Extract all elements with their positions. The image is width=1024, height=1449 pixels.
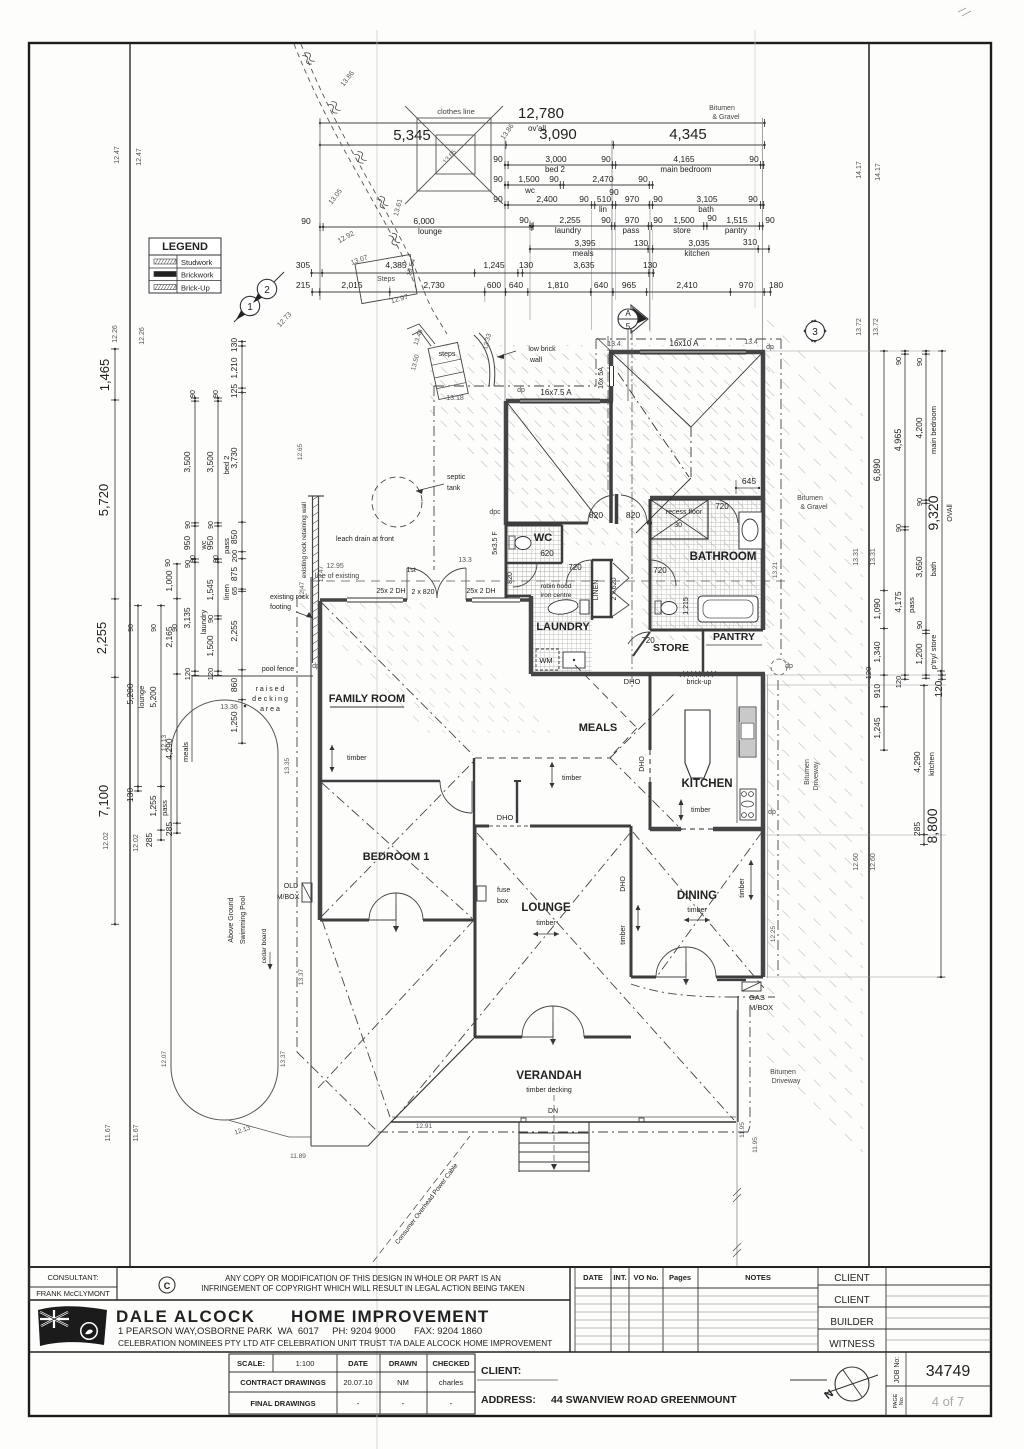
svg-text:12.26: 12.26 (112, 325, 119, 343)
svg-text:LINEN: LINEN (593, 580, 600, 601)
svg-text:2,255: 2,255 (559, 215, 581, 225)
svg-text:14.17: 14.17 (875, 163, 882, 181)
septic tank (372, 477, 422, 527)
svg-text:pantry: pantry (725, 226, 747, 235)
svg-text:12.65: 12.65 (297, 443, 304, 460)
svg-text:NM: NM (397, 1378, 409, 1387)
svg-text:2 x 820: 2 x 820 (412, 589, 435, 596)
svg-text:existing rock: existing rock (270, 594, 309, 601)
svg-text:pass: pass (623, 226, 640, 235)
dho dashes lounge top (489, 825, 530, 827)
svg-text:90: 90 (749, 154, 759, 164)
svg-text:CONTRACT DRAWINGS: CONTRACT DRAWINGS (240, 1378, 325, 1387)
main bedroom top wall (609, 350, 765, 355)
svg-text:dpc: dpc (489, 509, 501, 516)
svg-text:90: 90 (519, 215, 529, 225)
east wall of bed1/lounge (473, 758, 475, 920)
svg-text:90: 90 (165, 559, 172, 567)
svg-text:LEGEND: LEGEND (162, 241, 208, 253)
laundry door arc (566, 560, 592, 586)
svg-text:2,255: 2,255 (94, 622, 109, 655)
family door arcs (406, 568, 408, 600)
svg-text:WITNESS: WITNESS (829, 1339, 875, 1350)
dining right wall (761, 832, 766, 977)
pool outline (171, 700, 278, 1120)
dp circle (771, 659, 787, 675)
tiled floor bathroom (650, 498, 762, 628)
svg-text:1,245: 1,245 (872, 717, 882, 739)
svg-text:charles: charles (439, 1378, 463, 1387)
svg-text:4,965: 4,965 (893, 429, 903, 452)
power cable (373, 1136, 470, 1262)
svg-text:Bitumen: Bitumen (804, 759, 811, 785)
svg-text:720: 720 (568, 563, 582, 572)
svg-text:65: 65 (230, 587, 239, 595)
marker circle 2 (253, 280, 272, 303)
svg-text:90: 90 (213, 555, 220, 563)
svg-text:970: 970 (739, 280, 753, 290)
bathroom door arcs (650, 560, 676, 586)
svg-text:laundry: laundry (555, 226, 581, 235)
svg-text:FINAL DRAWINGS: FINAL DRAWINGS (250, 1399, 315, 1408)
dim chain wc/2470 (505, 184, 653, 186)
svg-text:Driveway: Driveway (772, 1078, 801, 1085)
steps tilted rect (355, 254, 417, 303)
svg-text:215: 215 (296, 280, 310, 290)
roof lines west wing (322, 603, 473, 755)
svg-text:kitchen: kitchen (927, 752, 936, 776)
right margin line (868, 43, 870, 1267)
svg-text:16x 5A: 16x 5A (598, 367, 605, 389)
svg-text:12.02: 12.02 (133, 834, 140, 852)
svg-text:pool fence: pool fence (262, 666, 294, 673)
svg-text:DALE ALCOCK: DALE ALCOCK (116, 1307, 256, 1326)
raised deck (191, 676, 193, 762)
svg-text:12.02: 12.02 (103, 832, 110, 850)
gas mbox (742, 982, 761, 991)
svg-text:860: 860 (229, 678, 239, 692)
svg-text:-: - (402, 1399, 405, 1408)
client sig rows (885, 1267, 887, 1352)
svg-text:1,545: 1,545 (205, 579, 215, 601)
svg-text:1,215: 1,215 (683, 597, 690, 615)
svg-text:DATE: DATE (348, 1359, 368, 1368)
svg-text:pass: pass (907, 597, 916, 613)
svg-text:90: 90 (601, 154, 611, 164)
svg-text:-: - (357, 1399, 360, 1408)
svg-text:90: 90 (915, 498, 924, 506)
svg-text:120: 120 (864, 667, 873, 680)
dim chain bed2/main bedroom (505, 164, 764, 166)
svg-text:dp: dp (312, 663, 320, 670)
svg-text:Above Ground: Above Ground (228, 897, 235, 942)
svg-text:Steps: Steps (377, 276, 395, 283)
scan fold line left (376, 30, 378, 1449)
left chain bed2/pass/linen (217, 398, 219, 675)
svg-text:DHO: DHO (639, 756, 646, 772)
svg-text:11.67: 11.67 (133, 1124, 140, 1141)
consultant box (29, 1299, 570, 1301)
svg-text:OVAll: OVAll (947, 504, 954, 522)
bath tub (698, 596, 758, 622)
center nib (615, 494, 619, 524)
svg-text:lounge: lounge (418, 227, 443, 236)
svg-text:620: 620 (540, 549, 554, 558)
svg-text:M/BOX: M/BOX (277, 894, 300, 901)
svg-text:3,500: 3,500 (205, 451, 215, 473)
svg-text:11.89: 11.89 (290, 1153, 306, 1160)
svg-text:875: 875 (229, 567, 239, 581)
svg-text:90: 90 (638, 174, 648, 184)
svg-text:timber: timber (620, 925, 627, 945)
645 dim (736, 487, 759, 489)
right chain 3 (925, 351, 927, 678)
kitchen right wall (761, 674, 766, 832)
svg-text:timber: timber (562, 775, 582, 782)
svg-text:NOTES: NOTES (745, 1273, 771, 1282)
svg-text:footing: footing (270, 604, 291, 611)
svg-text:A: A (625, 309, 631, 318)
wc walls (506, 524, 562, 527)
svg-text:1,500: 1,500 (673, 215, 695, 225)
svg-text:ANY COPY OR MODIFICATION OF TH: ANY COPY OR MODIFICATION OF THIS DESIGN … (225, 1274, 501, 1283)
left main chain (114, 349, 116, 924)
svg-text:DHO: DHO (624, 677, 641, 686)
svg-text:-: - (450, 1399, 453, 1408)
left chain lounge (137, 606, 139, 791)
svg-text:FRANK McCLYMONT: FRANK McCLYMONT (36, 1289, 110, 1298)
svg-text:pass: pass (160, 800, 169, 816)
dim chain lounge 6000 (320, 226, 532, 228)
svg-text:90: 90 (549, 174, 559, 184)
svg-text:Brickwork: Brickwork (181, 271, 214, 280)
svg-text:3,105: 3,105 (696, 194, 718, 204)
svg-text:44 SWANVIEW ROAD GREENMOUNT: 44 SWANVIEW ROAD GREENMOUNT (551, 1394, 737, 1406)
lounge/dining divider (630, 826, 633, 977)
dim chain 5345/3090/4345 (320, 144, 765, 146)
svg-text:WM: WM (539, 656, 552, 665)
svg-text:3,000: 3,000 (545, 154, 567, 164)
svg-text:12.95: 12.95 (326, 563, 344, 570)
svg-text:Driveway: Driveway (813, 761, 820, 790)
svg-text:Bitumen: Bitumen (797, 495, 823, 502)
svg-text:LOUNGE: LOUNGE (521, 902, 571, 914)
svg-text:Studwork: Studwork (181, 258, 213, 267)
svg-text:2,400: 2,400 (536, 194, 558, 204)
bottom band (29, 1351, 991, 1353)
svg-text:1,500: 1,500 (205, 635, 215, 657)
job/page cells (885, 1352, 887, 1416)
right chain 1 (883, 351, 885, 750)
svg-text:820: 820 (589, 510, 603, 520)
title block top line (29, 1266, 991, 1268)
svg-text:meals: meals (572, 249, 593, 258)
bed1 double door (369, 893, 396, 920)
right chain kitchen (923, 685, 925, 844)
svg-text:5,200: 5,200 (148, 686, 158, 708)
svg-text:4,345: 4,345 (669, 126, 707, 143)
right chain 4 overall (941, 351, 943, 679)
svg-text:720: 720 (653, 566, 667, 575)
svg-text:25x 2 DH: 25x 2 DH (466, 588, 495, 595)
section line vertical (631, 330, 633, 690)
legend box (149, 238, 221, 293)
svg-text:90: 90 (190, 555, 197, 563)
svg-text:FAMILY ROOM: FAMILY ROOM (329, 693, 405, 705)
right chain 8800 (940, 671, 942, 977)
marker 3 (804, 320, 826, 342)
svg-text:910: 910 (872, 684, 882, 698)
svg-text:120: 120 (894, 676, 903, 689)
hatch right strip (767, 320, 863, 1152)
svg-text:septic: septic (447, 474, 466, 481)
window 16x10A (640, 349, 746, 351)
svg-text:120: 120 (183, 668, 192, 681)
svg-text:3,650: 3,650 (914, 556, 924, 578)
svg-text:1 PEARSON WAY,OSBORNE PARK WA: 1 PEARSON WAY,OSBORNE PARK WA 6017 PH: 9… (118, 1326, 482, 1337)
svg-text:3,635: 3,635 (573, 260, 595, 270)
svg-text:13.4: 13.4 (607, 341, 621, 348)
svg-text:13.18: 13.18 (446, 395, 464, 402)
family top wall + windows (320, 598, 347, 602)
copyright (159, 1277, 175, 1293)
svg-text:DN: DN (548, 1108, 558, 1115)
svg-text:fuse: fuse (497, 887, 510, 894)
svg-text:lounge: lounge (137, 686, 146, 709)
door arc bed2 (588, 495, 614, 523)
svg-text:13.37: 13.37 (280, 1050, 287, 1067)
bed1 bottom wall (320, 919, 369, 922)
svg-text:25x 2 DH: 25x 2 DH (376, 588, 405, 595)
svg-text:- 30: - 30 (670, 522, 682, 529)
svg-text:DINING: DINING (677, 890, 717, 902)
svg-text:BUILDER: BUILDER (830, 1317, 873, 1328)
svg-text:90: 90 (748, 194, 758, 204)
svg-text:PANTRY: PANTRY (713, 631, 755, 643)
svg-text:12,780: 12,780 (518, 105, 564, 122)
svg-text:timber: timber (691, 807, 711, 814)
timber arrow family (331, 745, 333, 772)
svg-text:130: 130 (519, 260, 533, 270)
svg-text:90: 90 (653, 215, 663, 225)
svg-text:16x10 A: 16x10 A (670, 339, 700, 348)
svg-text:13.47: 13.47 (318, 565, 325, 582)
svg-text:3,035: 3,035 (688, 238, 710, 248)
svg-text:7,100: 7,100 (96, 785, 111, 818)
svg-text:1:100: 1:100 (296, 1359, 315, 1368)
svg-text:12.60: 12.60 (870, 853, 877, 871)
svg-text:90: 90 (208, 521, 215, 529)
svg-text:90: 90 (206, 615, 215, 623)
svg-text:OLD: OLD (284, 883, 298, 890)
family left wall (318, 601, 323, 920)
svg-text:90: 90 (894, 357, 903, 365)
svg-text:a r e a: a r e a (260, 706, 280, 713)
svg-text:1: 1 (247, 302, 253, 313)
timber arrow meals (551, 762, 553, 788)
svg-text:3: 3 (812, 327, 818, 338)
laundry walls (529, 596, 534, 674)
svg-text:1,245: 1,245 (483, 260, 505, 270)
svg-text:2,255: 2,255 (229, 620, 239, 642)
svg-text:low brick: low brick (528, 346, 556, 353)
svg-text:meals: meals (181, 742, 190, 762)
svg-text:MEALS: MEALS (579, 722, 618, 734)
lounge top wall (475, 825, 489, 828)
svg-text:5,200: 5,200 (125, 683, 135, 705)
svg-text:existing rock retaining wall: existing rock retaining wall (301, 502, 308, 578)
recess floor shower (651, 500, 708, 539)
corner pencil mark (958, 8, 971, 16)
left chain 5200/1255/285 (160, 606, 162, 840)
svg-text:JOB No:: JOB No: (894, 1357, 901, 1384)
bathroom walls (650, 496, 765, 501)
svg-text:1,810: 1,810 (547, 280, 569, 290)
linen bifold doors (613, 563, 629, 616)
svg-text:timber: timber (347, 755, 367, 762)
svg-text:4,385: 4,385 (385, 260, 407, 270)
dim chain 2400/510/970/3105 (505, 204, 764, 206)
svg-text:VO No.: VO No. (633, 1273, 658, 1282)
svg-text:BATHROOM: BATHROOM (690, 551, 757, 563)
svg-text:wall: wall (529, 357, 543, 364)
svg-text:6,890: 6,890 (872, 459, 882, 482)
svg-text:DATE: DATE (583, 1273, 603, 1282)
svg-text:90: 90 (601, 215, 611, 225)
svg-text:dp: dp (768, 809, 776, 816)
svg-text:KITCHEN: KITCHEN (681, 778, 732, 790)
svg-text:2,470: 2,470 (592, 174, 614, 184)
store/pantry walls (702, 630, 705, 674)
svg-text:600: 600 (487, 280, 501, 290)
svg-text:13.36: 13.36 (220, 704, 238, 711)
pool fence (192, 675, 313, 677)
svg-text:3,395: 3,395 (574, 238, 596, 248)
kitchen/meals divider (649, 674, 652, 750)
svg-text:12.47: 12.47 (136, 148, 143, 166)
svg-text:& Gravel: & Gravel (800, 504, 828, 511)
eaves top (596, 338, 781, 340)
svg-text:1,090: 1,090 (872, 598, 882, 620)
svg-text:13.35: 13.35 (284, 757, 291, 774)
roof lines lounge/dining (477, 833, 734, 1120)
svg-text:90: 90 (128, 624, 135, 632)
store door leaf (633, 632, 650, 656)
bed2 bottom wall + door (506, 522, 588, 525)
dim chain meals/kitchen (530, 248, 769, 250)
svg-text:1,255: 1,255 (148, 795, 158, 817)
tiled floor wc (506, 527, 562, 598)
svg-text:leach drain at front: leach drain at front (336, 536, 394, 543)
svg-text:970: 970 (625, 194, 639, 204)
svg-text:13.72: 13.72 (856, 318, 863, 336)
svg-text:VERANDAH: VERANDAH (516, 1070, 581, 1082)
svg-text:main bedroom: main bedroom (929, 406, 938, 454)
svg-text:12.07: 12.07 (161, 1050, 168, 1067)
svg-text:CLIENT: CLIENT (834, 1273, 870, 1284)
svg-text:tank: tank (447, 485, 461, 492)
svg-text:13.72: 13.72 (873, 318, 880, 336)
svg-text:HOME IMPROVEMENT: HOME IMPROVEMENT (291, 1307, 489, 1326)
compass (790, 1379, 827, 1381)
left margin line (129, 43, 131, 1267)
svg-text:Brick-Up: Brick-Up (181, 284, 210, 293)
svg-text:285: 285 (164, 822, 174, 836)
dining bottom wall + doors (631, 976, 656, 979)
svg-text:90: 90 (915, 621, 924, 629)
svg-text:DRAWN: DRAWN (389, 1359, 417, 1368)
svg-text:3,135: 3,135 (182, 607, 192, 629)
svg-text:5x3.5 F: 5x3.5 F (492, 531, 499, 554)
svg-text:5,720: 5,720 (96, 484, 111, 517)
svg-text:1,000: 1,000 (164, 570, 174, 592)
svg-text:12.60: 12.60 (853, 853, 860, 871)
low brick wall (479, 333, 495, 386)
svg-text:bed 2: bed 2 (545, 165, 566, 174)
svg-text:C: C (164, 1281, 171, 1291)
svg-text:90: 90 (301, 216, 311, 226)
svg-text:p'try/ store: p'try/ store (929, 635, 938, 670)
fuse box (477, 886, 486, 901)
bedroom2 left wall (504, 401, 509, 525)
left fine chain (241, 342, 243, 744)
svg-text:WC: WC (534, 532, 552, 544)
svg-text:130: 130 (643, 260, 657, 270)
left chain wc/laundry (194, 398, 196, 675)
logo flag (38, 1306, 107, 1346)
svg-text:kitchen: kitchen (684, 249, 709, 258)
svg-text:dp: dp (766, 344, 774, 351)
svg-text:lin: lin (599, 205, 607, 214)
trough (563, 652, 585, 668)
brick-up hatch (680, 671, 716, 677)
svg-text:STORE: STORE (653, 642, 689, 654)
stove (740, 789, 756, 820)
dim chain laundry/pass/store/pantry (530, 225, 763, 227)
svg-text:main bedroom: main bedroom (660, 165, 711, 174)
shower lobby door arc (513, 563, 537, 587)
svg-text:dp: dp (517, 387, 525, 394)
svg-text:wc: wc (524, 186, 535, 195)
svg-text:20.07.10: 20.07.10 (343, 1378, 372, 1387)
svg-text:Bitumen: Bitumen (770, 1069, 796, 1076)
svg-text:& Gravel: & Gravel (712, 114, 740, 121)
svg-text:90: 90 (493, 154, 503, 164)
sewer line (294, 44, 417, 291)
svg-text:d e c k i n g: d e c k i n g (252, 696, 288, 703)
svg-text:12.47: 12.47 (114, 146, 121, 164)
svg-text:200: 200 (230, 550, 239, 563)
svg-text:13.4: 13.4 (744, 339, 758, 346)
svg-text:90: 90 (915, 358, 924, 366)
svg-text:1,200: 1,200 (914, 643, 924, 665)
svg-text:dp: dp (785, 663, 793, 670)
svg-text:Swimming Pool: Swimming Pool (240, 895, 247, 944)
svg-text:12.13: 12.13 (161, 734, 168, 751)
kitchen bench edge (736, 675, 738, 823)
main bedroom right wall (761, 350, 766, 500)
svg-text:1,515: 1,515 (726, 215, 748, 225)
eaves west/south (296, 597, 298, 1052)
svg-text:13.21: 13.21 (772, 561, 779, 578)
svg-text:DHO: DHO (497, 813, 514, 822)
kitchen island (685, 710, 710, 778)
svg-text:645: 645 (742, 476, 756, 486)
svg-text:130: 130 (229, 338, 239, 352)
wc fixtures (509, 536, 515, 549)
timber arrow kitchen (680, 801, 682, 819)
svg-text:1,500: 1,500 (518, 174, 540, 184)
